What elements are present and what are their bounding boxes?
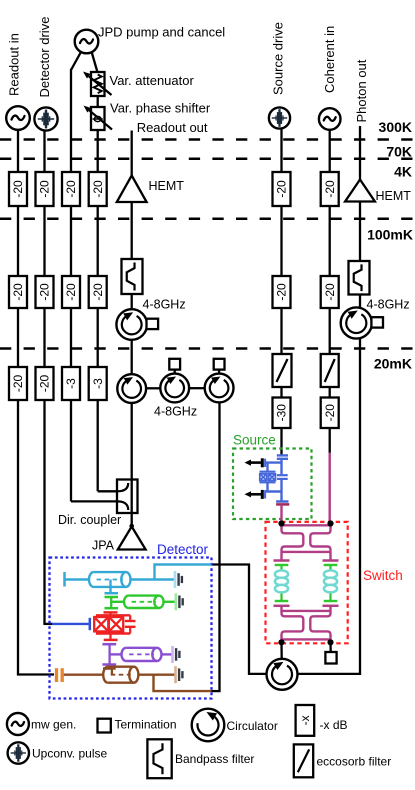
transmon top stub: [109, 612, 111, 615]
transmon top plate (red): [104, 611, 118, 614]
attenuator -20 dB (readout in, 100mK): [9, 276, 27, 308]
green resonator vertical wire: [110, 597, 112, 608]
wire JPD pump left branch down: [70, 69, 72, 502]
wire detector output bottom black segment: [211, 690, 221, 692]
svg-text:70K: 70K: [386, 144, 412, 160]
upconverted pulse source: Source drive: [269, 107, 290, 128]
source transmon shunt capacitor: [277, 475, 288, 479]
node switch top-left junction: [278, 520, 284, 526]
termination square (switch right output): [325, 652, 336, 664]
wire green resonator right: [164, 601, 176, 603]
svg-text:JPA: JPA: [92, 539, 115, 553]
source SQUID Josephson junction 2: [269, 474, 276, 481]
svg-text:-20: -20: [11, 180, 25, 198]
svg-text:4-8GHz: 4-8GHz: [367, 298, 410, 312]
transmon Josephson junction 2 (red crossed box): [109, 617, 123, 631]
svg-text:-x: -x: [298, 715, 312, 725]
source output capacitor maroon plate: [276, 503, 289, 506]
cyan resonator coupling stub down: [109, 580, 111, 593]
cyan resonator output port capacitor: [175, 571, 182, 588]
svg-text:-20: -20: [38, 375, 52, 393]
wire photon-out line down: [359, 126, 361, 180]
wire phase shifter down: [97, 129, 99, 491]
wire cyan output riser to switch circulator: [155, 565, 212, 580]
circulator (switch output, bottom): [267, 659, 298, 690]
wire brown resonator left: [64, 674, 103, 676]
wire cyan resonator left: [65, 578, 90, 580]
svg-text:-20: -20: [11, 375, 25, 393]
wire readout-out HEMT to bandpass to circulator: [131, 202, 133, 310]
JPA amplifier triangle: [118, 527, 146, 550]
wire coherent-in magenta segment into switch: [329, 453, 331, 524]
Source dashed enclosure: [233, 449, 312, 520]
wire dir coupler to JPA: [131, 513, 133, 528]
attenuator -20 dB (source drive, 4K): [273, 172, 291, 206]
source SQUID rail top: [260, 471, 276, 473]
svg-text:-3: -3: [64, 378, 78, 389]
mw generator: Coherent in: [319, 108, 341, 130]
wire coherent-in line down to 20mK: [329, 130, 331, 453]
purple resonator bottom plate: [102, 663, 116, 666]
bandpass filter 4-8GHz (photon out): [349, 261, 370, 295]
cyan buffer cavity resonator: [89, 572, 131, 587]
svg-text:-20: -20: [323, 180, 337, 198]
node switch bottom-left junction: [278, 639, 284, 645]
svg-text:-20: -20: [38, 180, 52, 198]
node dir coupler to JPA: [129, 524, 134, 529]
stage boundary 4K/100mK dashed line: [0, 217, 415, 220]
wire source-drive line down cryostat: [280, 129, 282, 455]
source SQUID rail bottom: [260, 481, 276, 483]
source transmon loop bottom wire: [265, 490, 282, 492]
wire switch bottom-left port stub: [280, 639, 282, 643]
cyan-green coupling capacitor cyan plate: [105, 592, 119, 595]
transmon shunt capacitor (red): [125, 615, 136, 633]
detector drive wire (blue) into transmon: [52, 623, 89, 625]
attenuator -3 dB (JPD pump A, 20mK): [62, 367, 80, 400]
wire brown resonator output branch down: [154, 675, 212, 691]
switch hybrid coupler top: [282, 525, 331, 552]
brown readout cavity resonator: [103, 667, 138, 683]
wire circulator3 down leg: [218, 402, 220, 691]
wire purple resonator to cavity: [110, 653, 122, 655]
svg-text:Detector drive: Detector drive: [37, 17, 52, 98]
transmon Josephson junction 1 (red crossed box): [94, 617, 108, 631]
stage boundary 100mK/20mK dashed line: [0, 347, 415, 350]
svg-text:Var. phase shifter: Var. phase shifter: [110, 101, 211, 116]
brown resonator output port capacitor: [176, 666, 183, 683]
svg-text:4-8GHz: 4-8GHz: [154, 405, 197, 419]
stage boundary 300K/70K dashed line: [0, 138, 415, 141]
attenuator -20 dB (JPD pump A, 4K): [62, 172, 80, 206]
variable attenuator arrow: [83, 72, 112, 96]
HEMT amplifier (photon out): [345, 180, 375, 202]
svg-text:100mK: 100mK: [367, 227, 413, 243]
attenuator -20 dB (JPD pump B, 4K): [89, 172, 107, 206]
switch resonator leg left (capacitors + inductor): [274, 552, 290, 611]
svg-text:HEMT: HEMT: [376, 189, 412, 203]
svg-text:Dir. coupler: Dir. coupler: [58, 513, 121, 527]
detector drive coupling capacitor blue plate: [89, 618, 92, 630]
circulator (readout out, 100mK): [116, 309, 158, 340]
HEMT amplifier (readout out): [117, 176, 147, 203]
transmon rail bottom: [96, 632, 130, 634]
wire readout-out circulator to circulator row: [131, 340, 133, 375]
green coupler cavity resonator: [124, 596, 163, 608]
svg-text:mw gen.: mw gen.: [31, 718, 76, 732]
wire JPD left branch to dir coupler: [71, 500, 117, 502]
upconverted pulse source: Detector drive: [34, 107, 57, 130]
wire bottom circulator to photon-out riser: [298, 673, 362, 675]
source flux port upper (black arrow): [245, 458, 266, 467]
legend mw generator symbol: [7, 713, 29, 735]
node switch top-right junction: [327, 520, 333, 526]
svg-text:-20: -20: [91, 180, 105, 198]
svg-text:-20: -20: [323, 283, 337, 301]
svg-text:Termination: Termination: [115, 718, 177, 732]
wire green resonator to cavity: [111, 601, 124, 603]
svg-text:Readout out: Readout out: [137, 120, 208, 135]
source input capacitor (blue): [277, 455, 288, 458]
wire attenuator to phase shifter link: [97, 95, 99, 108]
svg-text:4K: 4K: [394, 164, 412, 180]
svg-text:-20: -20: [64, 180, 78, 198]
green resonator top plate: [105, 596, 119, 599]
legend eccosorb filter symbol: [294, 744, 313, 777]
svg-text:-x dB: -x dB: [320, 718, 348, 732]
transmon bottom stub: [109, 634, 111, 639]
wire switch bottom-right port stub: [329, 639, 331, 643]
source SQUID Josephson junction 1: [260, 474, 267, 481]
wire circulator1 down to dir coupler: [131, 403, 133, 480]
attenuator -20 dB (detector drive, 4K): [36, 172, 54, 206]
svg-text:Bandpass filter: Bandpass filter: [175, 752, 254, 766]
svg-text:Circulator: Circulator: [227, 719, 278, 733]
legend circulator symbol: [192, 709, 225, 742]
wire cyan resonator right: [131, 578, 176, 580]
cyan buffer resonator input capacitor plate: [63, 572, 66, 587]
legend bandpass filter symbol: [147, 739, 171, 778]
attenuator -20 dB (coherent in, 100mK): [321, 276, 339, 308]
green resonator output port capacitor: [176, 593, 183, 610]
switch hybrid coupler bottom: [282, 611, 331, 640]
eccosorb filter (coherent in): [321, 354, 339, 387]
svg-text:-20: -20: [91, 283, 105, 301]
attenuator -20 dB (detector drive, 20mK): [36, 367, 54, 400]
attenuator -20 dB (readout in, 4K): [9, 172, 27, 206]
legend -x dB attenuator symbol: [296, 705, 315, 736]
svg-text:Readout in: Readout in: [7, 33, 22, 96]
brown resonator stub into cavity: [111, 669, 113, 676]
switch resonator leg right (capacitors + inductor): [323, 552, 339, 611]
Detector dashed enclosure: [50, 558, 212, 699]
directional coupler box: [117, 480, 138, 514]
svg-text:20mK: 20mK: [374, 356, 412, 372]
legend upconverted pulse symbol: [8, 742, 29, 763]
attenuator -3 dB (JPD pump B, 20mK): [89, 367, 107, 400]
attenuator -30 dB (source drive, 20mK): [273, 398, 291, 429]
purple memory cavity resonator: [121, 648, 161, 661]
eccosorb filter (source drive): [273, 354, 292, 387]
transmon rail top: [96, 614, 130, 616]
green resonator bottom plate: [105, 607, 119, 610]
node switch bottom-right junction: [327, 639, 333, 645]
svg-text:-30: -30: [275, 404, 289, 422]
source transmon loop top wire: [265, 461, 282, 463]
wire switch top-right port stub: [329, 524, 331, 527]
variable phase shifter box: [91, 107, 105, 130]
wire source output magenta down to switch: [280, 504, 282, 523]
attenuator -20 dB (coherent in, 20mK): [321, 398, 339, 429]
circulator 3 (row, to detector): [205, 359, 234, 403]
svg-text:eccosorb filter: eccosorb filter: [317, 755, 392, 769]
wire readout-out tick above 300K: [131, 131, 133, 176]
svg-text:Detector: Detector: [157, 542, 209, 557]
wire switch top-left port stub: [280, 524, 282, 527]
source output capacitor blue plate: [276, 500, 288, 503]
circulator 1 (JPA output row): [117, 374, 146, 403]
transmon bottom plate (red): [104, 639, 118, 642]
attenuator -20 dB (coherent in, 4K): [321, 172, 339, 206]
Switch dashed enclosure: [266, 522, 348, 643]
wire circulator1-circulator2: [146, 387, 160, 389]
attenuator -20 dB (JPD pump B, 100mK): [89, 276, 107, 308]
svg-text:-20: -20: [275, 283, 289, 301]
circulator (photon out, 100mK): [341, 307, 383, 338]
purple resonator output port capacitor: [173, 646, 180, 663]
mw generator: JPD pump and cancel: [75, 30, 99, 54]
orange input coupling capacitor: [57, 668, 63, 682]
svg-text:-20: -20: [323, 404, 337, 422]
purple resonator top plate: [102, 643, 116, 646]
wire detector-drive horizontal into detector: [43, 623, 53, 625]
bandpass filter 4-8GHz (readout out): [122, 259, 143, 294]
svg-text:-20: -20: [64, 283, 78, 301]
source transmon main vertical wire: [280, 459, 282, 501]
wire photon-out HEMT down to circulator: [359, 202, 361, 308]
svg-text:Source: Source: [233, 433, 276, 448]
source transmon loop left branch: [266, 463, 268, 492]
svg-text:Switch: Switch: [363, 568, 403, 583]
purple resonator vertical wire: [108, 644, 110, 664]
brown resonator top plate: [103, 667, 116, 670]
wire switch right output to termination: [329, 642, 332, 652]
circulator 2 (row, terminated): [160, 359, 189, 403]
svg-text:Var. attenuator: Var. attenuator: [110, 73, 195, 88]
attenuator -20 dB (source drive, 100mK): [273, 276, 291, 308]
wire switch left output to circulator: [280, 642, 283, 659]
wire purple resonator right: [162, 653, 173, 655]
attenuator -20 dB (JPD pump A, 100mK): [62, 276, 80, 308]
wire readout-in line down cryostat: [17, 130, 19, 675]
svg-text:4-8GHz: 4-8GHz: [143, 298, 186, 312]
mw generator: Readout in: [6, 106, 30, 130]
wire JPD right branch to dir coupler: [98, 490, 117, 492]
wire JPD pump left branch diagonal: [71, 51, 82, 70]
wire detector output top segment black: [211, 565, 266, 674]
legend termination symbol: [98, 719, 111, 733]
svg-text:-20: -20: [38, 283, 52, 301]
source flux port lower (black arrow): [245, 490, 266, 499]
wire photon-out circulator down to bottom junction: [359, 339, 361, 674]
svg-text:Coherent in: Coherent in: [322, 26, 337, 93]
svg-text:JPD pump and cancel: JPD pump and cancel: [98, 25, 225, 40]
svg-text:-3: -3: [91, 378, 105, 389]
variable attenuator box: [91, 72, 105, 96]
svg-text:Photon out: Photon out: [354, 59, 369, 122]
svg-text:Source drive: Source drive: [271, 22, 286, 95]
wire JPD pump right branch diagonal: [92, 52, 98, 74]
variable phase shifter arrow: [84, 106, 113, 130]
attenuator -20 dB (detector drive, 100mK): [36, 276, 54, 308]
svg-text:-20: -20: [275, 180, 289, 198]
svg-text:Upconv. pulse: Upconv. pulse: [32, 747, 107, 761]
wire detector-drive line down cryostat: [43, 131, 45, 624]
svg-text:300K: 300K: [379, 119, 412, 135]
wire brown resonator right: [138, 674, 175, 676]
stage boundary 70K/4K dashed line: [0, 158, 415, 161]
wire readout-in horizontal to readout resonator: [17, 673, 54, 675]
svg-text:-20: -20: [11, 283, 25, 301]
attenuator -20 dB (readout in, 20mK): [9, 367, 27, 400]
wire circulator2-circulator3: [189, 387, 205, 389]
svg-text:HEMT: HEMT: [149, 179, 185, 193]
